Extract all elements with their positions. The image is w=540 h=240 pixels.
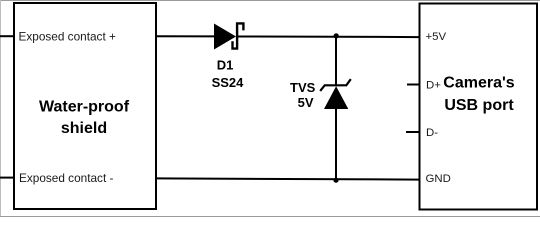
- frame edge bottom: [0, 216, 540, 217]
- svg-text:D-: D-: [426, 127, 438, 139]
- label D1 SS24: [212, 58, 245, 91]
- wire TVS to bottom rail: [335, 108, 337, 180]
- wire bottom rail: [155, 178, 420, 179]
- wire left stub +: [0, 35, 14, 37]
- water-proof shield block: [14, 3, 156, 209]
- svg-text:D+: D+: [426, 80, 441, 92]
- TVS diode: [320, 79, 351, 109]
- diode D1: [214, 23, 243, 49]
- label Water-proof shield: [39, 99, 130, 138]
- svg-text:SS24: SS24: [212, 75, 245, 90]
- wire top rail right segment: [336, 36, 420, 38]
- frame edge top: [0, 0, 540, 1]
- svg-text:Camera's: Camera's: [443, 75, 515, 92]
- svg-text:GND: GND: [426, 173, 451, 185]
- camera USB port block: [420, 4, 538, 210]
- pin D- stub: [406, 131, 420, 133]
- label TVS 5V: [290, 80, 316, 110]
- svg-text:+5V: +5V: [426, 31, 447, 43]
- node junction bottom: [333, 178, 338, 183]
- svg-text:USB port: USB port: [444, 97, 514, 114]
- wire top rail left segment: [155, 35, 215, 37]
- svg-text:Exposed contact +: Exposed contact +: [19, 29, 116, 43]
- node junction top: [334, 33, 339, 38]
- svg-text:TVS: TVS: [290, 80, 316, 95]
- pin D+ stub: [407, 84, 420, 86]
- svg-text:D1: D1: [217, 58, 234, 73]
- frame edge left: [0, 0, 1, 217]
- svg-text:Exposed contact -: Exposed contact -: [19, 171, 113, 185]
- svg-text:5V: 5V: [298, 95, 314, 110]
- wire TVS drop from top rail: [335, 37, 337, 85]
- wire top rail middle segment: [237, 36, 336, 38]
- wire left stub -: [0, 177, 14, 179]
- svg-text:shield: shield: [61, 120, 107, 137]
- label Camera's USB port: [443, 75, 515, 115]
- svg-text:Water-proof: Water-proof: [39, 99, 130, 116]
